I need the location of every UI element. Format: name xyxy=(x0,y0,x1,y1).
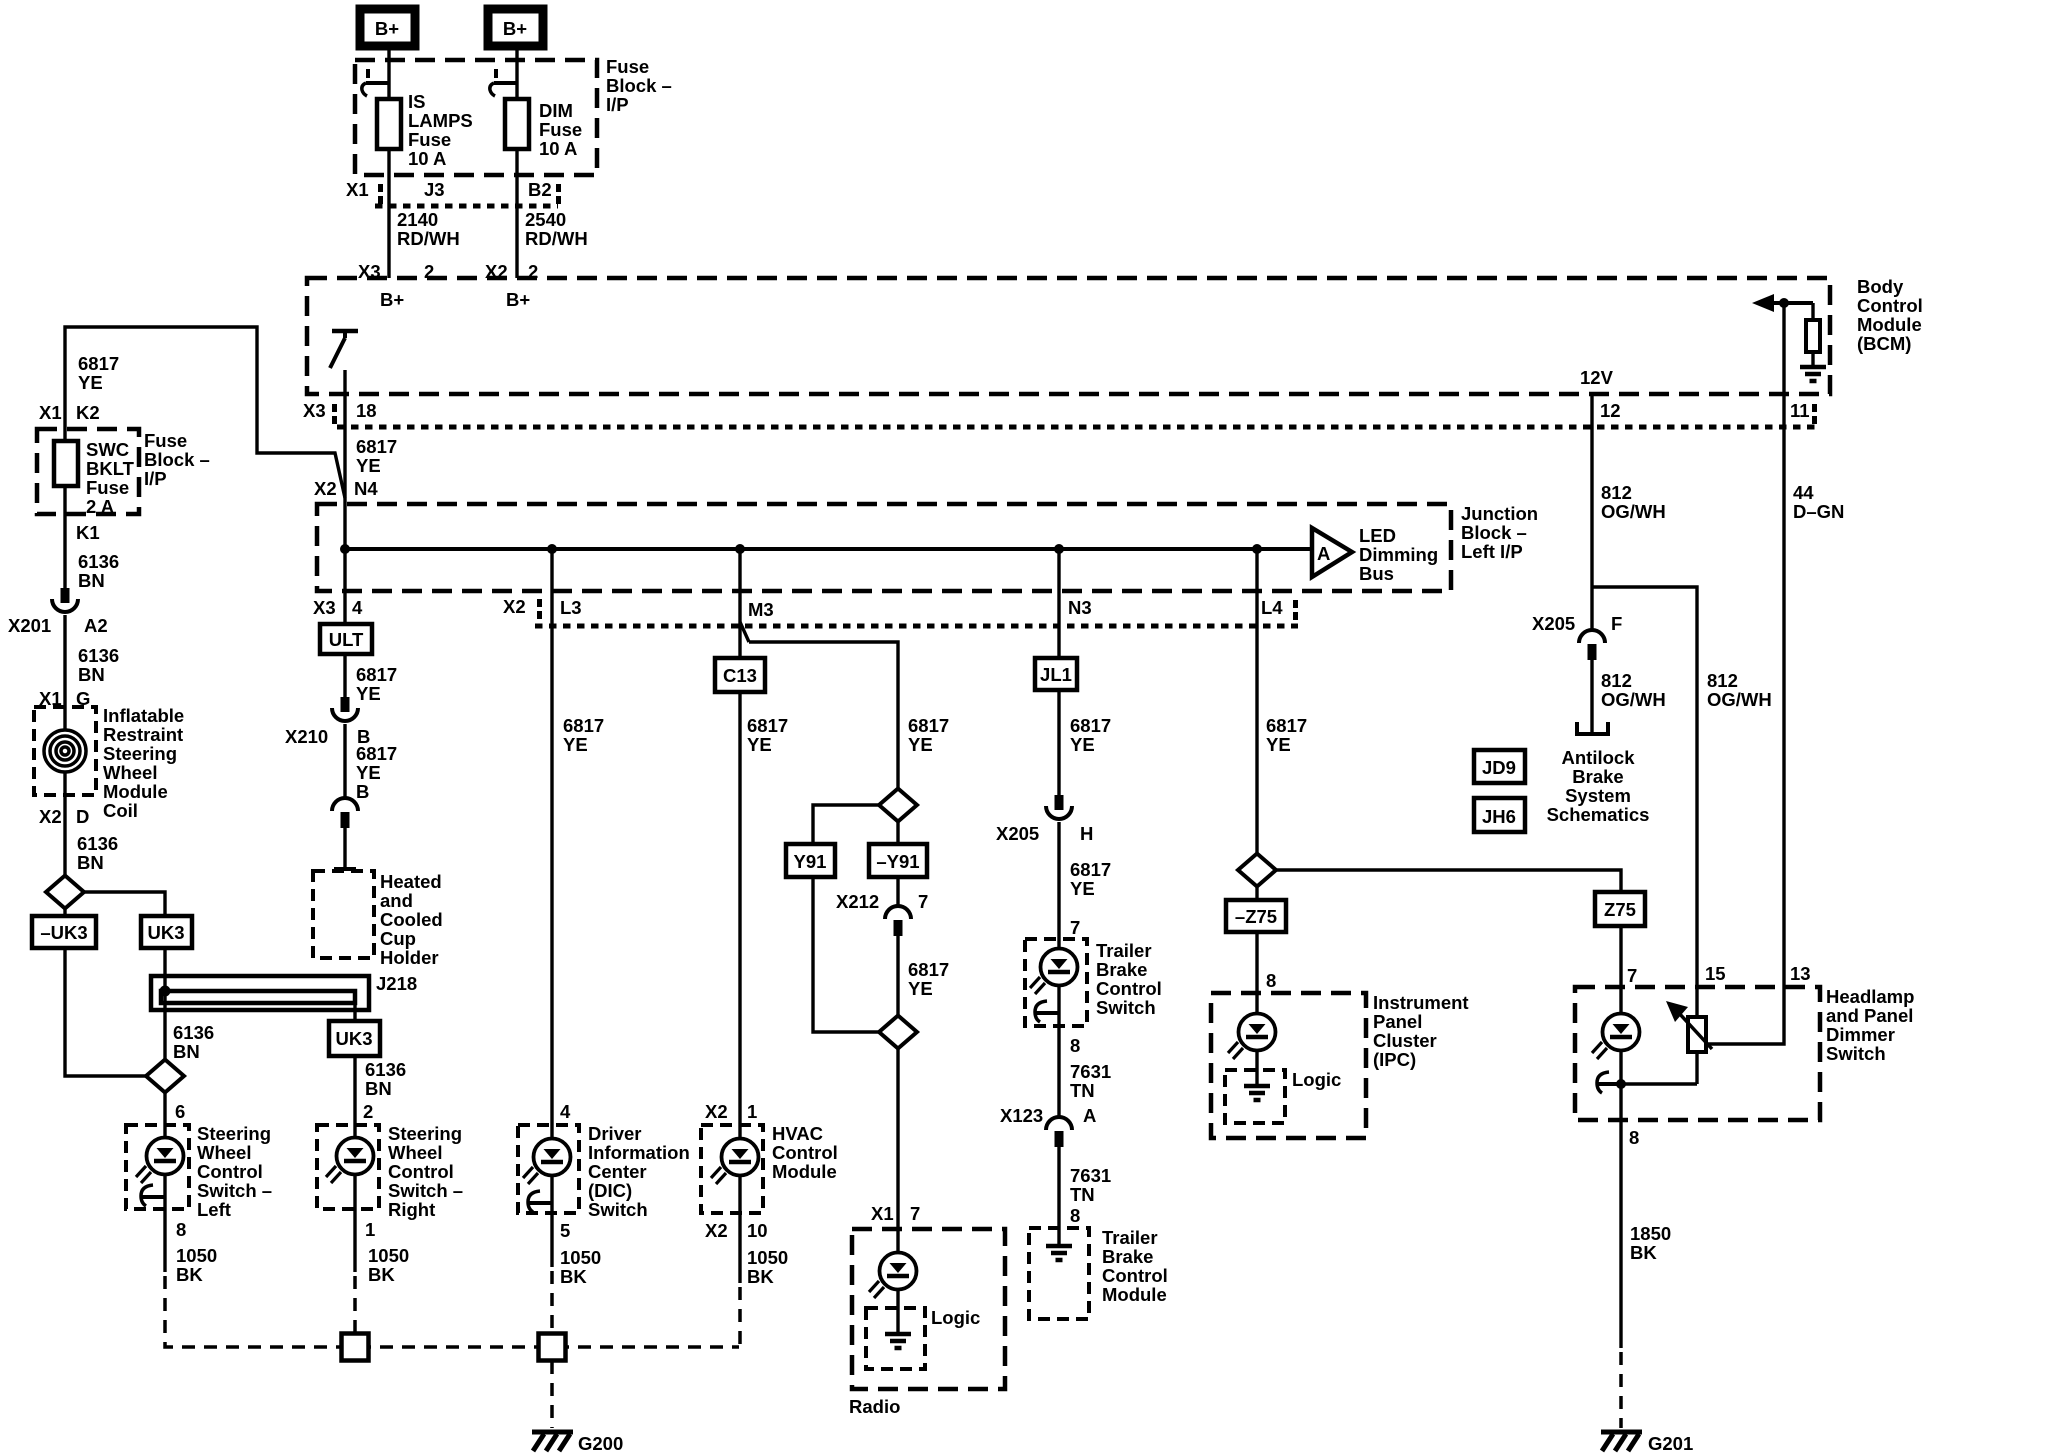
svg-text:OG/WH: OG/WH xyxy=(1707,689,1772,710)
Steering Wheel Control Switch - Right dashed box xyxy=(317,1125,379,1209)
svg-text:Control: Control xyxy=(197,1161,263,1182)
svg-text:Holder: Holder xyxy=(380,947,439,968)
svg-text:Y91: Y91 xyxy=(794,851,827,872)
svg-text:7631: 7631 xyxy=(1070,1061,1111,1082)
svg-text:Logic: Logic xyxy=(1292,1069,1341,1090)
svg-text:Control: Control xyxy=(1096,978,1162,999)
svg-text:Coil: Coil xyxy=(103,800,138,821)
svg-text:Junction: Junction xyxy=(1461,503,1538,524)
connector X212 7 xyxy=(885,906,911,936)
option box -Z75 xyxy=(1226,900,1286,932)
svg-text:Brake: Brake xyxy=(1102,1246,1153,1267)
LED dimming bus wire xyxy=(345,547,1312,551)
svg-text:7631: 7631 xyxy=(1070,1165,1111,1186)
svg-text:4: 4 xyxy=(352,597,363,618)
svg-text:M3: M3 xyxy=(748,599,774,620)
svg-text:Wheel: Wheel xyxy=(197,1142,251,1163)
svg-text:8: 8 xyxy=(1629,1127,1639,1148)
svg-text:–UK3: –UK3 xyxy=(40,922,87,943)
svg-text:2 A: 2 A xyxy=(86,496,114,517)
svg-text:Fuse: Fuse xyxy=(539,119,582,140)
wire B+1 to fuse xyxy=(387,46,390,99)
svg-text:BK: BK xyxy=(176,1264,203,1285)
svg-text:D–GN: D–GN xyxy=(1793,501,1844,522)
svg-text:X1: X1 xyxy=(871,1203,894,1224)
Heated and Cooled Cup Holder dashed box xyxy=(313,871,374,958)
svg-text:10 A: 10 A xyxy=(539,138,577,159)
svg-text:Instrument: Instrument xyxy=(1373,992,1469,1013)
svg-text:J3: J3 xyxy=(424,179,445,200)
svg-text:TN: TN xyxy=(1070,1080,1095,1101)
svg-text:6136: 6136 xyxy=(365,1059,406,1080)
svg-text:Wheel: Wheel xyxy=(388,1142,442,1163)
LED trailer switch xyxy=(1030,949,1078,995)
svg-text:812: 812 xyxy=(1601,670,1632,691)
svg-text:C13: C13 xyxy=(723,665,757,686)
svg-text:12V: 12V xyxy=(1580,367,1614,388)
connector (cup holder side) xyxy=(332,798,358,828)
svg-text:LAMPS: LAMPS xyxy=(408,110,473,131)
B+ terminal 2 xyxy=(488,9,543,46)
svg-text:OG/WH: OG/WH xyxy=(1601,501,1666,522)
svg-text:UK3: UK3 xyxy=(147,922,184,943)
fuse SWC BKLT 2A xyxy=(54,441,78,486)
LED DIC switch xyxy=(523,1139,571,1185)
wire branch to radio xyxy=(749,642,898,789)
svg-text:G200: G200 xyxy=(578,1433,623,1454)
svg-text:13: 13 xyxy=(1790,963,1811,984)
svg-text:B+: B+ xyxy=(503,18,527,39)
splice diamond Y91 xyxy=(879,789,917,822)
svg-text:Z75: Z75 xyxy=(1604,899,1636,920)
svg-text:X2: X2 xyxy=(503,596,526,617)
svg-text:OG/WH: OG/WH xyxy=(1601,689,1666,710)
svg-text:BN: BN xyxy=(173,1041,200,1062)
svg-text:K2: K2 xyxy=(76,402,100,423)
Headlamp and Panel Dimmer Switch dashed box xyxy=(1575,987,1820,1120)
svg-text:6817: 6817 xyxy=(908,959,949,980)
wire Y91 to diamond3 xyxy=(813,877,880,1032)
switch contact hook xyxy=(141,1185,165,1206)
svg-text:Antilock: Antilock xyxy=(1562,747,1636,768)
svg-text:J218: J218 xyxy=(376,973,417,994)
svg-text:1850: 1850 xyxy=(1630,1223,1671,1244)
svg-text:Wheel: Wheel xyxy=(103,762,157,783)
HVAC Control Module dashed box xyxy=(701,1125,763,1213)
option box JD9 xyxy=(1474,750,1525,783)
svg-text:X2: X2 xyxy=(314,478,337,499)
svg-text:8: 8 xyxy=(1266,970,1276,991)
wire 13 into rheostat xyxy=(1708,987,1784,1044)
svg-text:YE: YE xyxy=(908,978,933,999)
svg-text:(DIC): (DIC) xyxy=(588,1180,632,1201)
svg-text:L3: L3 xyxy=(560,597,582,618)
svg-text:Panel: Panel xyxy=(1373,1011,1422,1032)
wire fuse2 down to BCM xyxy=(515,149,518,278)
svg-text:(BCM): (BCM) xyxy=(1857,333,1911,354)
wire diamond to UK3 xyxy=(84,892,165,916)
svg-text:HVAC: HVAC xyxy=(772,1123,823,1144)
wire diamond to Y91 xyxy=(813,805,880,844)
wire 1050 BK left switch xyxy=(163,1211,166,1272)
wire diamond2 to left switch xyxy=(163,1092,166,1139)
svg-text:Inflatable: Inflatable xyxy=(103,705,184,726)
LED radio xyxy=(869,1253,917,1299)
wire UK3 to right switch xyxy=(353,1056,356,1139)
wire UK3 down through J218 xyxy=(163,948,166,1060)
ground (radio logic) xyxy=(885,1334,911,1348)
svg-text:Cup: Cup xyxy=(380,928,416,949)
svg-text:6817: 6817 xyxy=(747,715,788,736)
svg-text:BN: BN xyxy=(365,1078,392,1099)
fuse clip hook 2 xyxy=(490,69,518,96)
svg-text:D: D xyxy=(76,806,89,827)
wire diamond to -Y91 xyxy=(896,821,899,844)
wire right switch down xyxy=(353,1174,356,1272)
wire bus to DIC switch (L3) xyxy=(550,549,553,1139)
svg-text:Headlamp: Headlamp xyxy=(1826,986,1914,1007)
svg-text:B: B xyxy=(356,781,369,802)
svg-text:6817: 6817 xyxy=(563,715,604,736)
option box JH6 xyxy=(1474,798,1525,832)
svg-text:Module: Module xyxy=(772,1161,837,1182)
dashed wire to G201 xyxy=(1619,1352,1623,1428)
svg-text:1050: 1050 xyxy=(560,1247,601,1268)
wire X210 to cup holder connector xyxy=(343,724,346,797)
svg-text:X2: X2 xyxy=(705,1220,728,1241)
svg-text:System: System xyxy=(1565,785,1631,806)
switch contact hook trailer xyxy=(1035,1001,1059,1022)
svg-text:G201: G201 xyxy=(1648,1433,1693,1454)
connector X205 F xyxy=(1579,630,1605,660)
svg-text:15: 15 xyxy=(1705,963,1726,984)
wire hook to rheostat xyxy=(1621,1082,1697,1085)
svg-text:Cluster: Cluster xyxy=(1373,1030,1437,1051)
svg-text:I/P: I/P xyxy=(144,468,167,489)
wire X212 to diamond3 xyxy=(896,936,899,1017)
svg-text:812: 812 xyxy=(1707,670,1738,691)
svg-text:Restraint: Restraint xyxy=(103,724,183,745)
svg-text:Heated: Heated xyxy=(380,871,442,892)
svg-text:8: 8 xyxy=(1070,1035,1080,1056)
svg-text:Fuse: Fuse xyxy=(408,129,451,150)
svg-text:A: A xyxy=(1317,543,1330,564)
dashed ground wire DIC xyxy=(550,1271,554,1334)
svg-text:2140: 2140 xyxy=(397,209,438,230)
svg-text:UK3: UK3 xyxy=(335,1028,372,1049)
splice square 1 xyxy=(342,1334,369,1361)
svg-text:Steering: Steering xyxy=(197,1123,271,1144)
svg-text:6817: 6817 xyxy=(1070,859,1111,880)
wire HVAC down xyxy=(738,1175,741,1283)
antilock brake system stub xyxy=(1577,722,1608,734)
dotted connector row (BCM) xyxy=(337,425,1816,430)
switch contact hook headlamp xyxy=(1597,1072,1621,1093)
wire BCM switch output xyxy=(343,370,346,549)
svg-text:YE: YE xyxy=(356,762,381,783)
Steering Wheel Control Switch - Left dashed box xyxy=(126,1125,189,1209)
dotted connector row (fuse block) xyxy=(375,204,558,209)
Logic dashed box (radio) xyxy=(866,1308,925,1369)
LED IPC xyxy=(1228,1014,1276,1060)
ground G200 xyxy=(532,1432,573,1451)
svg-text:Control: Control xyxy=(1102,1265,1168,1286)
svg-text:BK: BK xyxy=(747,1266,774,1287)
svg-text:Module: Module xyxy=(103,781,168,802)
option box JL1 xyxy=(1035,658,1077,690)
Radio dashed box xyxy=(852,1229,1005,1389)
option box UK3 xyxy=(141,916,192,948)
splice square 2 xyxy=(539,1334,566,1361)
wire X123 to trailer module xyxy=(1057,1147,1060,1228)
svg-text:X3: X3 xyxy=(313,597,336,618)
svg-text:Control: Control xyxy=(1857,295,1923,316)
svg-text:Fuse: Fuse xyxy=(86,477,129,498)
svg-text:Dimmer: Dimmer xyxy=(1826,1024,1895,1045)
svg-text:X1: X1 xyxy=(346,179,369,200)
svg-text:8: 8 xyxy=(1070,1205,1080,1226)
wire -UK3 down and over to diamond 2 xyxy=(65,948,146,1076)
svg-text:ULT: ULT xyxy=(329,629,364,650)
wire diamond3 to radio xyxy=(896,1048,899,1255)
svg-text:YE: YE xyxy=(356,683,381,704)
svg-text:Bus: Bus xyxy=(1359,563,1394,584)
coil spiral xyxy=(44,730,86,772)
svg-text:Driver: Driver xyxy=(588,1123,641,1144)
svg-text:Radio: Radio xyxy=(849,1396,900,1417)
option box -Y91 xyxy=(869,844,927,877)
svg-text:7: 7 xyxy=(918,891,928,912)
svg-text:Fuse: Fuse xyxy=(606,56,649,77)
Driver Information Center (DIC) Switch dashed box xyxy=(518,1125,579,1213)
connector X205 H xyxy=(1046,795,1072,819)
svg-text:Module: Module xyxy=(1102,1284,1167,1305)
wire X205 to trailer switch xyxy=(1057,822,1060,950)
option box -UK3 xyxy=(32,916,96,948)
svg-text:Left I/P: Left I/P xyxy=(1461,541,1523,562)
svg-text:K1: K1 xyxy=(76,522,100,543)
wire LED to logic ground xyxy=(1255,1050,1258,1086)
wire X205F to antilock stub xyxy=(1590,660,1593,734)
LED left switch xyxy=(136,1138,184,1184)
svg-text:6817: 6817 xyxy=(356,436,397,457)
svg-text:YE: YE xyxy=(78,372,103,393)
svg-text:7: 7 xyxy=(910,1203,920,1224)
svg-text:A: A xyxy=(1083,1105,1096,1126)
svg-text:6817: 6817 xyxy=(78,353,119,374)
svg-text:BN: BN xyxy=(78,570,105,591)
dashed ground wire left xyxy=(165,1276,739,1347)
wire LED radio to ground xyxy=(896,1289,899,1334)
option box ULT xyxy=(320,624,372,654)
pin label M3 jog xyxy=(740,622,749,642)
svg-text:6136: 6136 xyxy=(78,645,119,666)
wire diamond to -UK3 xyxy=(63,908,66,916)
svg-text:1: 1 xyxy=(747,1101,757,1122)
svg-text:Switch: Switch xyxy=(1096,997,1156,1018)
svg-text:BK: BK xyxy=(560,1266,587,1287)
svg-text:1050: 1050 xyxy=(747,1247,788,1268)
svg-text:6817: 6817 xyxy=(356,743,397,764)
svg-text:YE: YE xyxy=(747,734,772,755)
wire C13 to HVAC xyxy=(738,692,741,1139)
svg-text:BN: BN xyxy=(78,664,105,685)
svg-text:Switch –: Switch – xyxy=(388,1180,463,1201)
svg-text:and Panel: and Panel xyxy=(1826,1005,1913,1026)
wire fuse to X201 xyxy=(63,486,66,588)
svg-text:6817: 6817 xyxy=(356,664,397,685)
wire LED to box bottom xyxy=(1057,985,1060,1026)
wire to cup holder xyxy=(343,828,346,869)
dashed wire to G200 xyxy=(550,1361,554,1428)
wire 12V from BCM xyxy=(1590,394,1593,630)
svg-text:X212: X212 xyxy=(836,891,879,912)
svg-text:X205: X205 xyxy=(1532,613,1575,634)
BCM internal ground xyxy=(1800,367,1826,381)
svg-text:Fuse: Fuse xyxy=(144,430,187,451)
svg-text:YE: YE xyxy=(908,734,933,755)
splice diamond 3 xyxy=(879,1016,917,1049)
fuse clip hook 1 xyxy=(362,69,390,96)
wire B+2 to fuse xyxy=(515,46,518,99)
svg-text:BK: BK xyxy=(368,1264,395,1285)
svg-text:H: H xyxy=(1080,823,1093,844)
svg-text:IS: IS xyxy=(408,91,425,112)
svg-text:B+: B+ xyxy=(380,289,404,310)
svg-text:(IPC): (IPC) xyxy=(1373,1049,1416,1070)
svg-text:6136: 6136 xyxy=(173,1022,214,1043)
svg-text:Trailer: Trailer xyxy=(1096,940,1152,961)
svg-text:TN: TN xyxy=(1070,1184,1095,1205)
wire -Z75 to IPC xyxy=(1255,932,1258,1014)
wire DIC down xyxy=(550,1213,553,1267)
LED headlamp xyxy=(1592,1014,1640,1060)
svg-text:Left: Left xyxy=(197,1199,231,1220)
svg-text:Switch –: Switch – xyxy=(197,1180,272,1201)
Logic dashed box (IPC) xyxy=(1225,1070,1285,1123)
BCM internal resistor xyxy=(1806,303,1820,365)
svg-text:BN: BN xyxy=(77,852,104,873)
svg-text:Cooled: Cooled xyxy=(380,909,443,930)
svg-text:Module: Module xyxy=(1857,314,1922,335)
svg-text:X210: X210 xyxy=(285,726,328,747)
svg-text:Dimming: Dimming xyxy=(1359,544,1438,565)
svg-text:10: 10 xyxy=(747,1220,768,1241)
svg-text:Body: Body xyxy=(1857,276,1904,297)
wire diamond to Z75 xyxy=(1276,870,1621,892)
svg-text:2: 2 xyxy=(363,1101,373,1122)
svg-text:Center: Center xyxy=(588,1161,647,1182)
svg-text:Information: Information xyxy=(588,1142,690,1163)
svg-text:Logic: Logic xyxy=(931,1307,980,1328)
svg-text:YE: YE xyxy=(1070,878,1095,899)
wire 812 branch to headlamp xyxy=(1592,587,1697,1017)
Trailer Brake Control Module dashed box xyxy=(1029,1228,1089,1319)
svg-text:12: 12 xyxy=(1600,400,1621,421)
svg-text:6817: 6817 xyxy=(1070,715,1111,736)
svg-text:JD9: JD9 xyxy=(1482,757,1516,778)
svg-text:–Z75: –Z75 xyxy=(1235,906,1277,927)
switch contact hook DIC xyxy=(528,1191,552,1212)
B+ terminal 1 xyxy=(360,9,415,46)
wire LED to box bottom xyxy=(550,1175,553,1213)
option box Y91 xyxy=(786,844,835,877)
svg-text:X3: X3 xyxy=(303,400,326,421)
svg-text:812: 812 xyxy=(1601,482,1632,503)
wire J218 to UK3 (right) xyxy=(353,1003,356,1021)
svg-text:B+: B+ xyxy=(506,289,530,310)
svg-text:18: 18 xyxy=(356,400,377,421)
splice diamond Z75 xyxy=(1238,854,1276,887)
svg-text:Steering: Steering xyxy=(103,743,177,764)
svg-text:BK: BK xyxy=(1630,1242,1657,1263)
Fuse Block - I/P dashed box (top) xyxy=(355,60,597,175)
svg-text:Right: Right xyxy=(388,1199,435,1220)
connector X201 A2 xyxy=(52,588,78,612)
svg-text:1: 1 xyxy=(365,1219,375,1240)
svg-text:6136: 6136 xyxy=(77,833,118,854)
svg-text:DIM: DIM xyxy=(539,100,573,121)
wire 44 D-GN from BCM to headlamp switch xyxy=(1779,298,1789,987)
BCM internal switch xyxy=(330,331,358,368)
ground (trailer module) xyxy=(1046,1246,1072,1260)
LED HVAC xyxy=(711,1139,759,1185)
svg-text:RD/WH: RD/WH xyxy=(525,228,588,249)
svg-text:6136: 6136 xyxy=(78,551,119,572)
svg-text:X2: X2 xyxy=(39,806,62,827)
Instrument Panel Cluster (IPC) dashed box xyxy=(1211,993,1366,1138)
svg-text:Block –: Block – xyxy=(1461,522,1527,543)
wire fuse1 down to BCM xyxy=(387,149,390,278)
svg-text:X123: X123 xyxy=(1000,1105,1043,1126)
svg-text:X1: X1 xyxy=(39,402,62,423)
svg-text:YE: YE xyxy=(356,455,381,476)
svg-text:6: 6 xyxy=(175,1101,185,1122)
svg-text:10 A: 10 A xyxy=(408,148,446,169)
svg-text:1050: 1050 xyxy=(176,1245,217,1266)
Body Control Module (BCM) dashed box xyxy=(307,278,1830,394)
splice diamond 2 xyxy=(146,1060,184,1093)
svg-text:YE: YE xyxy=(563,734,588,755)
wire X201 to coil xyxy=(63,615,66,730)
svg-text:BKLT: BKLT xyxy=(86,458,135,479)
svg-text:Block –: Block – xyxy=(606,75,672,96)
svg-text:JL1: JL1 xyxy=(1040,664,1072,685)
wire into module xyxy=(1057,1228,1060,1245)
svg-text:YE: YE xyxy=(1266,734,1291,755)
wire bus to ULT xyxy=(343,549,346,624)
svg-text:B2: B2 xyxy=(528,179,552,200)
svg-text:X205: X205 xyxy=(996,823,1039,844)
svg-text:N3: N3 xyxy=(1068,597,1092,618)
LED right switch xyxy=(326,1138,374,1184)
wire LED to hook xyxy=(1619,1050,1622,1120)
fuse DIM 10A xyxy=(505,99,529,149)
Inflatable Restraint Steering Wheel Module Coil dashed box xyxy=(34,707,96,795)
svg-text:L4: L4 xyxy=(1261,597,1283,618)
Junction Block - Left I/P dashed box xyxy=(317,504,1451,591)
svg-text:X2: X2 xyxy=(705,1101,728,1122)
connector X123 A xyxy=(1046,1117,1072,1147)
wire to X123 xyxy=(1057,1026,1060,1117)
wire bus to JL1 (N3) xyxy=(1057,549,1060,658)
svg-text:B+: B+ xyxy=(375,18,399,39)
wire 1850 BK xyxy=(1619,1120,1622,1348)
svg-text:44: 44 xyxy=(1793,482,1814,503)
svg-text:YE: YE xyxy=(1070,734,1095,755)
svg-text:Schematics: Schematics xyxy=(1547,804,1650,825)
svg-text:11: 11 xyxy=(1790,400,1810,421)
